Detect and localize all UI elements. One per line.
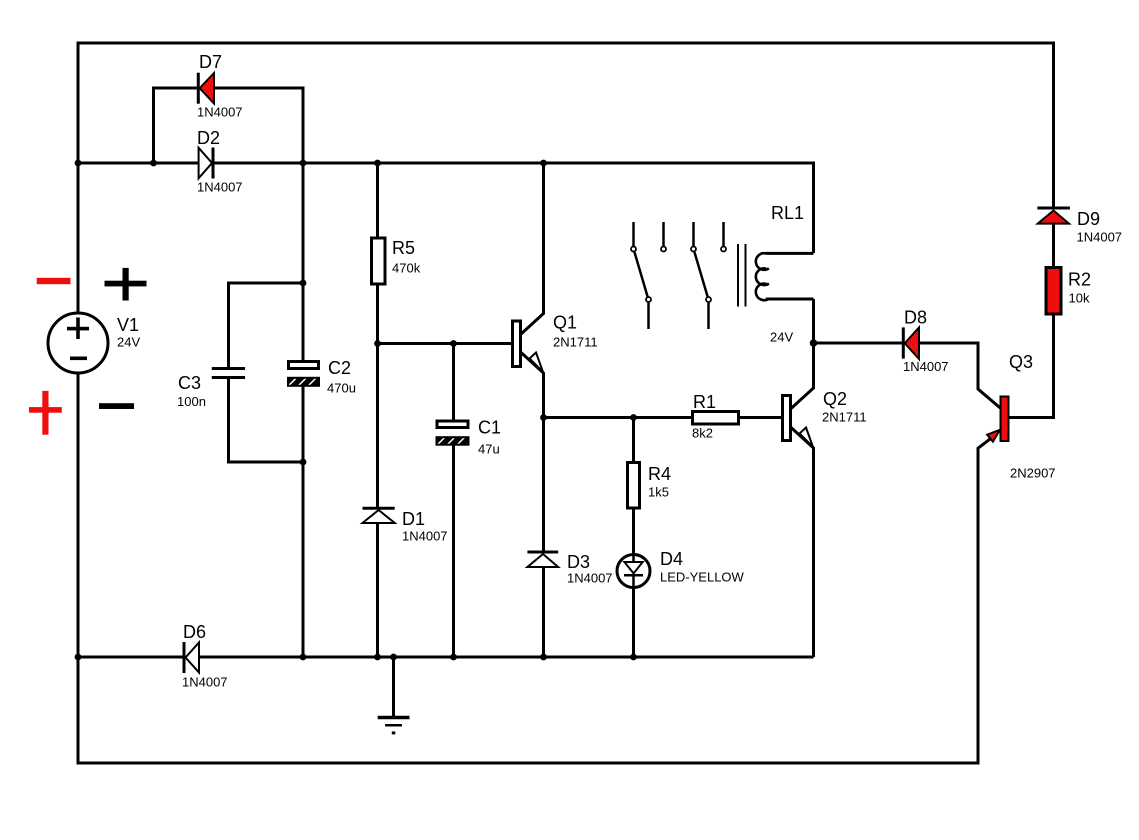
diode D6 (184, 642, 199, 673)
svg-text:C3: C3 (178, 373, 201, 393)
junction 24V node (810, 339, 818, 347)
voltage source V1 (48, 313, 108, 373)
wire: R4 to D4 (632, 508, 635, 562)
svg-text:RL1: RL1 (771, 203, 804, 223)
svg-text:LED-YELLOW: LED-YELLOW (660, 570, 745, 585)
wire: C1 top (452, 344, 455, 421)
transistor Q1 (513, 321, 544, 372)
polarity mark red minus (37, 278, 71, 284)
junction V1 bottom rail (75, 654, 82, 661)
svg-text:470u: 470u (327, 381, 356, 396)
svg-text:C1: C1 (478, 418, 501, 438)
junction C1 top (450, 340, 457, 347)
svg-text:1N4007: 1N4007 (903, 359, 949, 374)
wire: D7 branch up (154, 88, 199, 163)
wire: rail 0V after D6 (199, 656, 814, 659)
wire: Q2 emitter down (791, 427, 814, 657)
svg-text:Q1: Q1 (553, 313, 577, 333)
wire: D8 line left (814, 342, 904, 345)
polarity mark black minus (99, 403, 134, 409)
resistor R5 (372, 238, 386, 284)
junction C1 bottom (450, 654, 457, 661)
wire: Q1 base line (378, 342, 513, 345)
relay switch 2 throw (722, 222, 725, 246)
LED D4 (617, 555, 650, 588)
junction Q1 emitter node (540, 414, 547, 421)
relay switch 1 throw (662, 222, 665, 246)
wire: R5 top (376, 163, 379, 238)
svg-text:V1: V1 (117, 315, 139, 335)
svg-text:2N1711: 2N1711 (822, 410, 867, 425)
relay switch 1 pole (634, 222, 649, 329)
wire: D3 branch (542, 418, 545, 552)
svg-text:100n: 100n (177, 394, 206, 409)
diode D8 (903, 327, 919, 359)
resistor R4 (628, 463, 640, 509)
wire: D3 bottom (542, 567, 545, 657)
svg-text:1N4007: 1N4007 (197, 105, 243, 120)
wire: RL1 coil bottom link (766, 298, 814, 301)
svg-text:R1: R1 (693, 392, 716, 412)
transistor Q2 (783, 396, 814, 448)
svg-text:Q3: Q3 (1009, 352, 1033, 372)
wire: rail +V after D2 to RL1 corner (213, 163, 814, 253)
wire: ground stub (392, 657, 395, 717)
resistor R2 (1046, 268, 1061, 315)
wire: D7 to C2 column (214, 88, 303, 163)
wire: C1 bottom (452, 444, 455, 657)
wire: D1 bottom (376, 523, 379, 657)
svg-text:1N4007: 1N4007 (402, 529, 448, 544)
svg-text:1k5: 1k5 (648, 485, 669, 500)
diode D2 (199, 148, 213, 179)
junction D7 branch (150, 160, 157, 167)
wire: Q2 collector (791, 343, 814, 409)
svg-text:24V: 24V (770, 330, 793, 345)
svg-text:1N4007: 1N4007 (567, 571, 613, 586)
relay switch 2 pole (694, 222, 709, 329)
svg-text:D7: D7 (199, 52, 222, 72)
wire: column x=303 upper (302, 163, 305, 362)
wire: R1 to Q2 base (739, 416, 783, 419)
svg-text:8k2: 8k2 (692, 426, 713, 441)
junction R5 base line (374, 340, 381, 347)
wire: D8 line right to Q3 (919, 343, 1000, 408)
svg-text:D3: D3 (567, 552, 590, 572)
svg-text:470k: 470k (392, 261, 421, 276)
wire: RL1 coil top link (766, 252, 814, 255)
wire: Q1 emitter down (521, 352, 544, 418)
junction C2 column top (300, 160, 307, 167)
relay RL1 coil core (738, 244, 746, 307)
wire: D4 bottom (632, 575, 635, 657)
wire: C3 bottom branch (229, 379, 304, 462)
wire: outer border bottom (80, 453, 979, 763)
diode D9 (1037, 208, 1070, 224)
transistor Q3 (987, 397, 1008, 442)
wire: outer border top (78, 43, 1054, 765)
wire: R5 bottom to D1 (376, 284, 379, 508)
svg-text:2N2907: 2N2907 (1010, 466, 1056, 481)
wire: Q1 collector (521, 163, 544, 335)
wire: column x=303 lower (302, 386, 305, 658)
wire: R4 branch (632, 418, 635, 463)
wire: Q3 emitter diagonal (978, 436, 994, 456)
diode D1 (363, 508, 395, 523)
svg-text:Q2: Q2 (823, 389, 847, 409)
junction C3 bottom (300, 459, 307, 466)
svg-text:C2: C2 (328, 358, 351, 378)
wire: C3 top branch (229, 283, 304, 367)
svg-text:2N1711: 2N1711 (553, 335, 598, 350)
junction D1 bottom (374, 654, 381, 661)
svg-text:10k: 10k (1069, 291, 1090, 306)
wire: Q3 base to R2 (1009, 314, 1054, 418)
junction ground stub (390, 654, 397, 661)
svg-text:D4: D4 (660, 549, 683, 569)
svg-text:24V: 24V (117, 335, 140, 350)
wire: node line to R1 (544, 416, 693, 419)
junction C3 top (300, 280, 307, 287)
polarity mark black plus (105, 268, 147, 301)
svg-text:1N4007: 1N4007 (182, 675, 228, 690)
junction D3 bottom (540, 654, 547, 661)
svg-text:R4: R4 (648, 464, 671, 484)
diode D7 (198, 73, 214, 104)
wire: R2 to D9 (1052, 224, 1055, 268)
svg-text:R2: R2 (1068, 270, 1091, 290)
svg-text:D1: D1 (402, 509, 425, 529)
junction D4 bottom (630, 654, 637, 661)
polarity mark red plus (29, 391, 62, 435)
capacitor C2 (288, 362, 319, 386)
svg-text:47u: 47u (478, 442, 500, 457)
junction R5 top (374, 160, 381, 167)
junction R4 top (630, 414, 637, 421)
ground (378, 718, 410, 733)
wire: rail 0V bottom left (78, 656, 184, 659)
svg-text:R5: R5 (392, 238, 415, 258)
wire: RL1 coil right vertical (812, 299, 815, 343)
svg-text:D9: D9 (1077, 209, 1100, 229)
junction C2 column bottom (300, 654, 307, 661)
svg-text:D8: D8 (904, 308, 927, 328)
junction Q1 collector rail (540, 160, 547, 167)
wire: rail +V top y=163 (78, 162, 199, 165)
svg-text:D6: D6 (183, 622, 206, 642)
diode D3 (527, 552, 558, 567)
svg-text:1N4007: 1N4007 (197, 180, 243, 195)
junction V1 top rail (75, 160, 82, 167)
svg-text:D2: D2 (197, 128, 220, 148)
resistor R1 (693, 412, 739, 425)
capacitor C1 (437, 421, 469, 445)
capacitor C3 (212, 369, 245, 378)
relay RL1 coil (756, 253, 769, 300)
svg-text:1N4007: 1N4007 (1077, 230, 1123, 245)
